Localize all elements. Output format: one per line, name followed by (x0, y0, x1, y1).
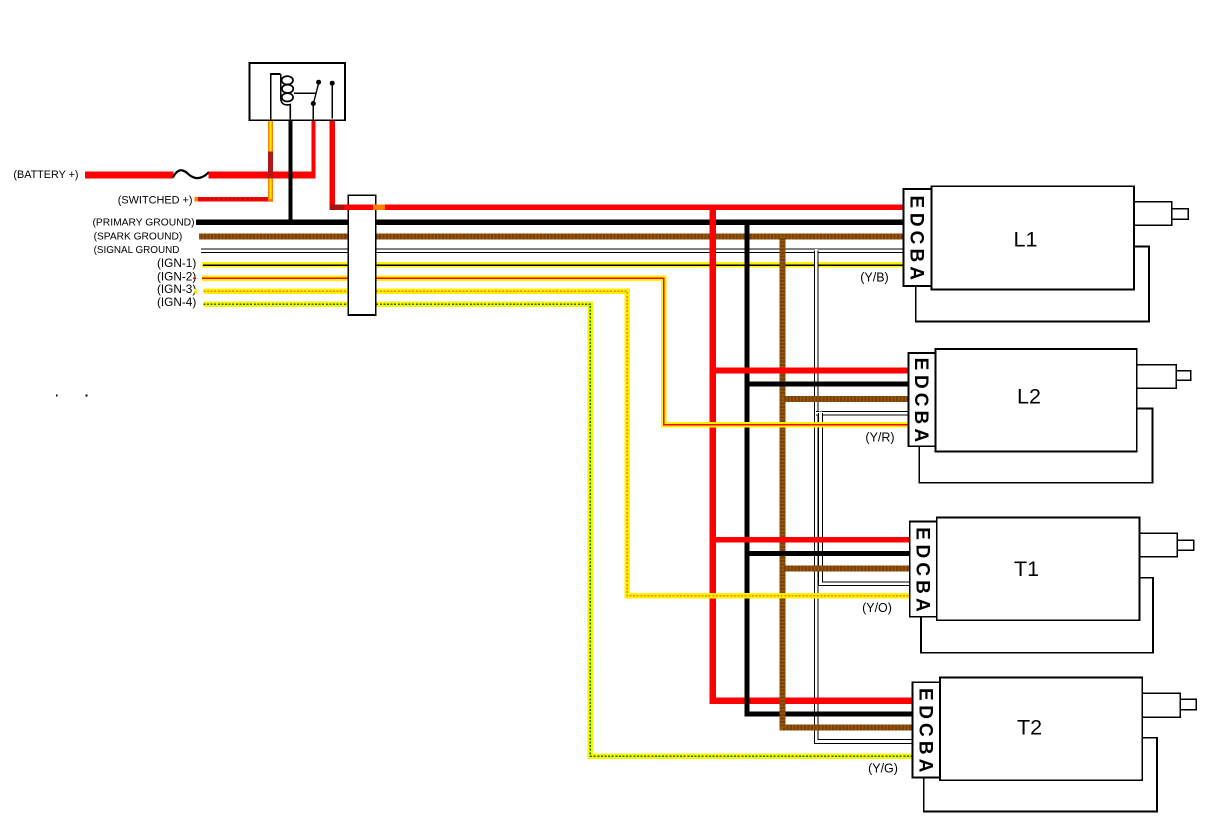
wire red switched feed bus (713, 207, 914, 701)
svg-text:A: A (912, 598, 933, 612)
wire IGN-4 yellow/green routed (203, 304, 914, 756)
wire signal ground white bus (816, 249, 914, 742)
svg-text:E: E (912, 527, 933, 540)
svg-text:C: C (906, 231, 927, 245)
svg-text:(IGN-2): (IGN-2) (157, 269, 196, 283)
svg-text:(PRIMARY GROUND): (PRIMARY GROUND) (92, 218, 194, 229)
module L1 plug stub (1172, 209, 1188, 220)
relay contact dot lower (311, 101, 316, 106)
svg-text:B: B (910, 411, 931, 425)
stray dot 1 (56, 395, 58, 397)
wire white tee to L2 pin B (815, 411, 910, 416)
svg-text:B: B (906, 248, 927, 262)
relay pin line right terminal (331, 85, 333, 119)
feed orange segment at connector (373, 205, 385, 211)
module L1 plug (1134, 202, 1172, 226)
svg-text:(IGN-3): (IGN-3) (157, 282, 196, 296)
svg-text:D: D (912, 545, 933, 559)
wire black tee to L2 pin D (747, 381, 910, 386)
wire IGN-1 yellow/black harness (202, 262, 906, 267)
module L1 secondary loop (916, 247, 1149, 322)
module T1 plug (1140, 533, 1178, 557)
svg-text:C: C (912, 562, 933, 576)
wire IGN-3 yellow/orange routed (203, 291, 911, 596)
svg-text:L2: L2 (1017, 385, 1041, 409)
svg-text:(SPARK GROUND): (SPARK GROUND) (94, 231, 183, 242)
relay battery wire red vertical (311, 120, 315, 175)
svg-text:D: D (910, 375, 931, 389)
wire SWITCHED+ maroon stripe (198, 198, 271, 200)
module L2 pin letters (910, 358, 931, 443)
svg-text:C: C (910, 393, 931, 407)
relay box (250, 63, 346, 120)
feed corner dark blob (330, 205, 344, 211)
fuse squiggle on battery wire (174, 170, 209, 178)
wire SWITCHED+ orange end blob (194, 197, 198, 201)
module L2 body (935, 349, 1136, 452)
wire IGN-2 yellow/red routed (202, 278, 910, 425)
wire IGN-2 overpass redraw (666, 422, 910, 427)
svg-text:(IGN-4): (IGN-4) (157, 295, 196, 309)
module T2 plug stub (1180, 699, 1196, 709)
wire SIGNAL GROUND white harness (201, 248, 906, 253)
relay coil (281, 74, 294, 120)
wire black tee to T1 pin D (747, 551, 912, 556)
module T1 plug stub (1177, 540, 1193, 550)
module L1 pin letters (906, 196, 927, 281)
wire PRIMARY GROUND black harness (196, 220, 906, 225)
svg-text:(SWITCHED +): (SWITCHED +) (118, 194, 193, 206)
svg-text:(BATTERY +): (BATTERY +) (13, 169, 78, 181)
module L2 plug stub (1176, 371, 1191, 381)
svg-text:C: C (914, 723, 935, 737)
module T1 pin letters (912, 527, 933, 612)
module T2 body (940, 678, 1142, 781)
svg-text:(Y/R): (Y/R) (865, 431, 894, 445)
module T2 pin letters (914, 688, 935, 773)
svg-text:D: D (914, 705, 935, 719)
wire IGN-3 overpass redraw (630, 593, 912, 598)
svg-text:(Y/O): (Y/O) (862, 601, 892, 615)
svg-text:E: E (906, 196, 927, 209)
svg-text:A: A (910, 428, 931, 442)
svg-text:B: B (914, 741, 935, 755)
wire white bus 2 to T1 pin B (821, 412, 912, 584)
svg-text:B: B (912, 580, 933, 594)
relay terminal dot right (330, 81, 335, 86)
module T1 pin box (910, 522, 937, 617)
svg-text:E: E (914, 688, 935, 701)
module T2 secondary loop (924, 738, 1157, 812)
wire brown tee to T1 pin C (782, 566, 911, 572)
module L2 secondary loop (919, 408, 1152, 482)
relay coil left lead (271, 74, 281, 120)
module L2 plug (1137, 365, 1176, 389)
svg-text:(Y/B): (Y/B) (860, 271, 888, 285)
module T2 pin box (912, 682, 940, 777)
svg-text:(SIGNAL GROUND: (SIGNAL GROUND (94, 245, 180, 256)
wire feed: main red from relay across connector (332, 120, 906, 207)
svg-text:L1: L1 (1014, 227, 1038, 251)
svg-text:D: D (906, 213, 927, 227)
module T1 body (937, 518, 1140, 621)
svg-text:E: E (910, 358, 931, 371)
wire black ground bus (747, 222, 914, 714)
svg-text:A: A (906, 266, 927, 280)
wire red tee to L2 pin E (713, 368, 910, 374)
svg-text:A: A (914, 759, 935, 773)
relay switch blade (313, 85, 318, 105)
svg-text:(IGN-1): (IGN-1) (157, 256, 196, 270)
svg-text:T1: T1 (1014, 557, 1039, 581)
wire BATTERY+ red right segment (209, 172, 316, 179)
module T2 plug (1142, 693, 1180, 717)
tick after IGN-3 label (195, 289, 198, 294)
svg-text:T2: T2 (1017, 715, 1042, 739)
wire red tee to T1 pin E (713, 537, 912, 543)
wire brown tee to L2 pin C (782, 396, 910, 402)
module L1 pin box (904, 189, 932, 286)
module L2 pin box (908, 353, 935, 446)
wire brown spark ground bus (782, 237, 914, 728)
relay coil wire orange vertical (268, 120, 273, 201)
relay ground wire black vertical (288, 120, 292, 222)
wire BATTERY+ red left segment (85, 172, 174, 179)
relay pin line below blade (312, 105, 314, 120)
module L1 body (931, 186, 1134, 289)
svg-text:(Y/G): (Y/G) (868, 762, 898, 776)
wire SWITCHED+ red horizontal (197, 197, 273, 202)
stray dot 2 (86, 395, 88, 397)
relay contact dot upper (316, 80, 321, 85)
connector block (348, 195, 375, 315)
tick after IGN-2 label (193, 277, 196, 279)
module T1 secondary loop (921, 578, 1153, 653)
relay switch link (294, 92, 316, 94)
wire SPARK GROUND brown harness (199, 233, 906, 239)
